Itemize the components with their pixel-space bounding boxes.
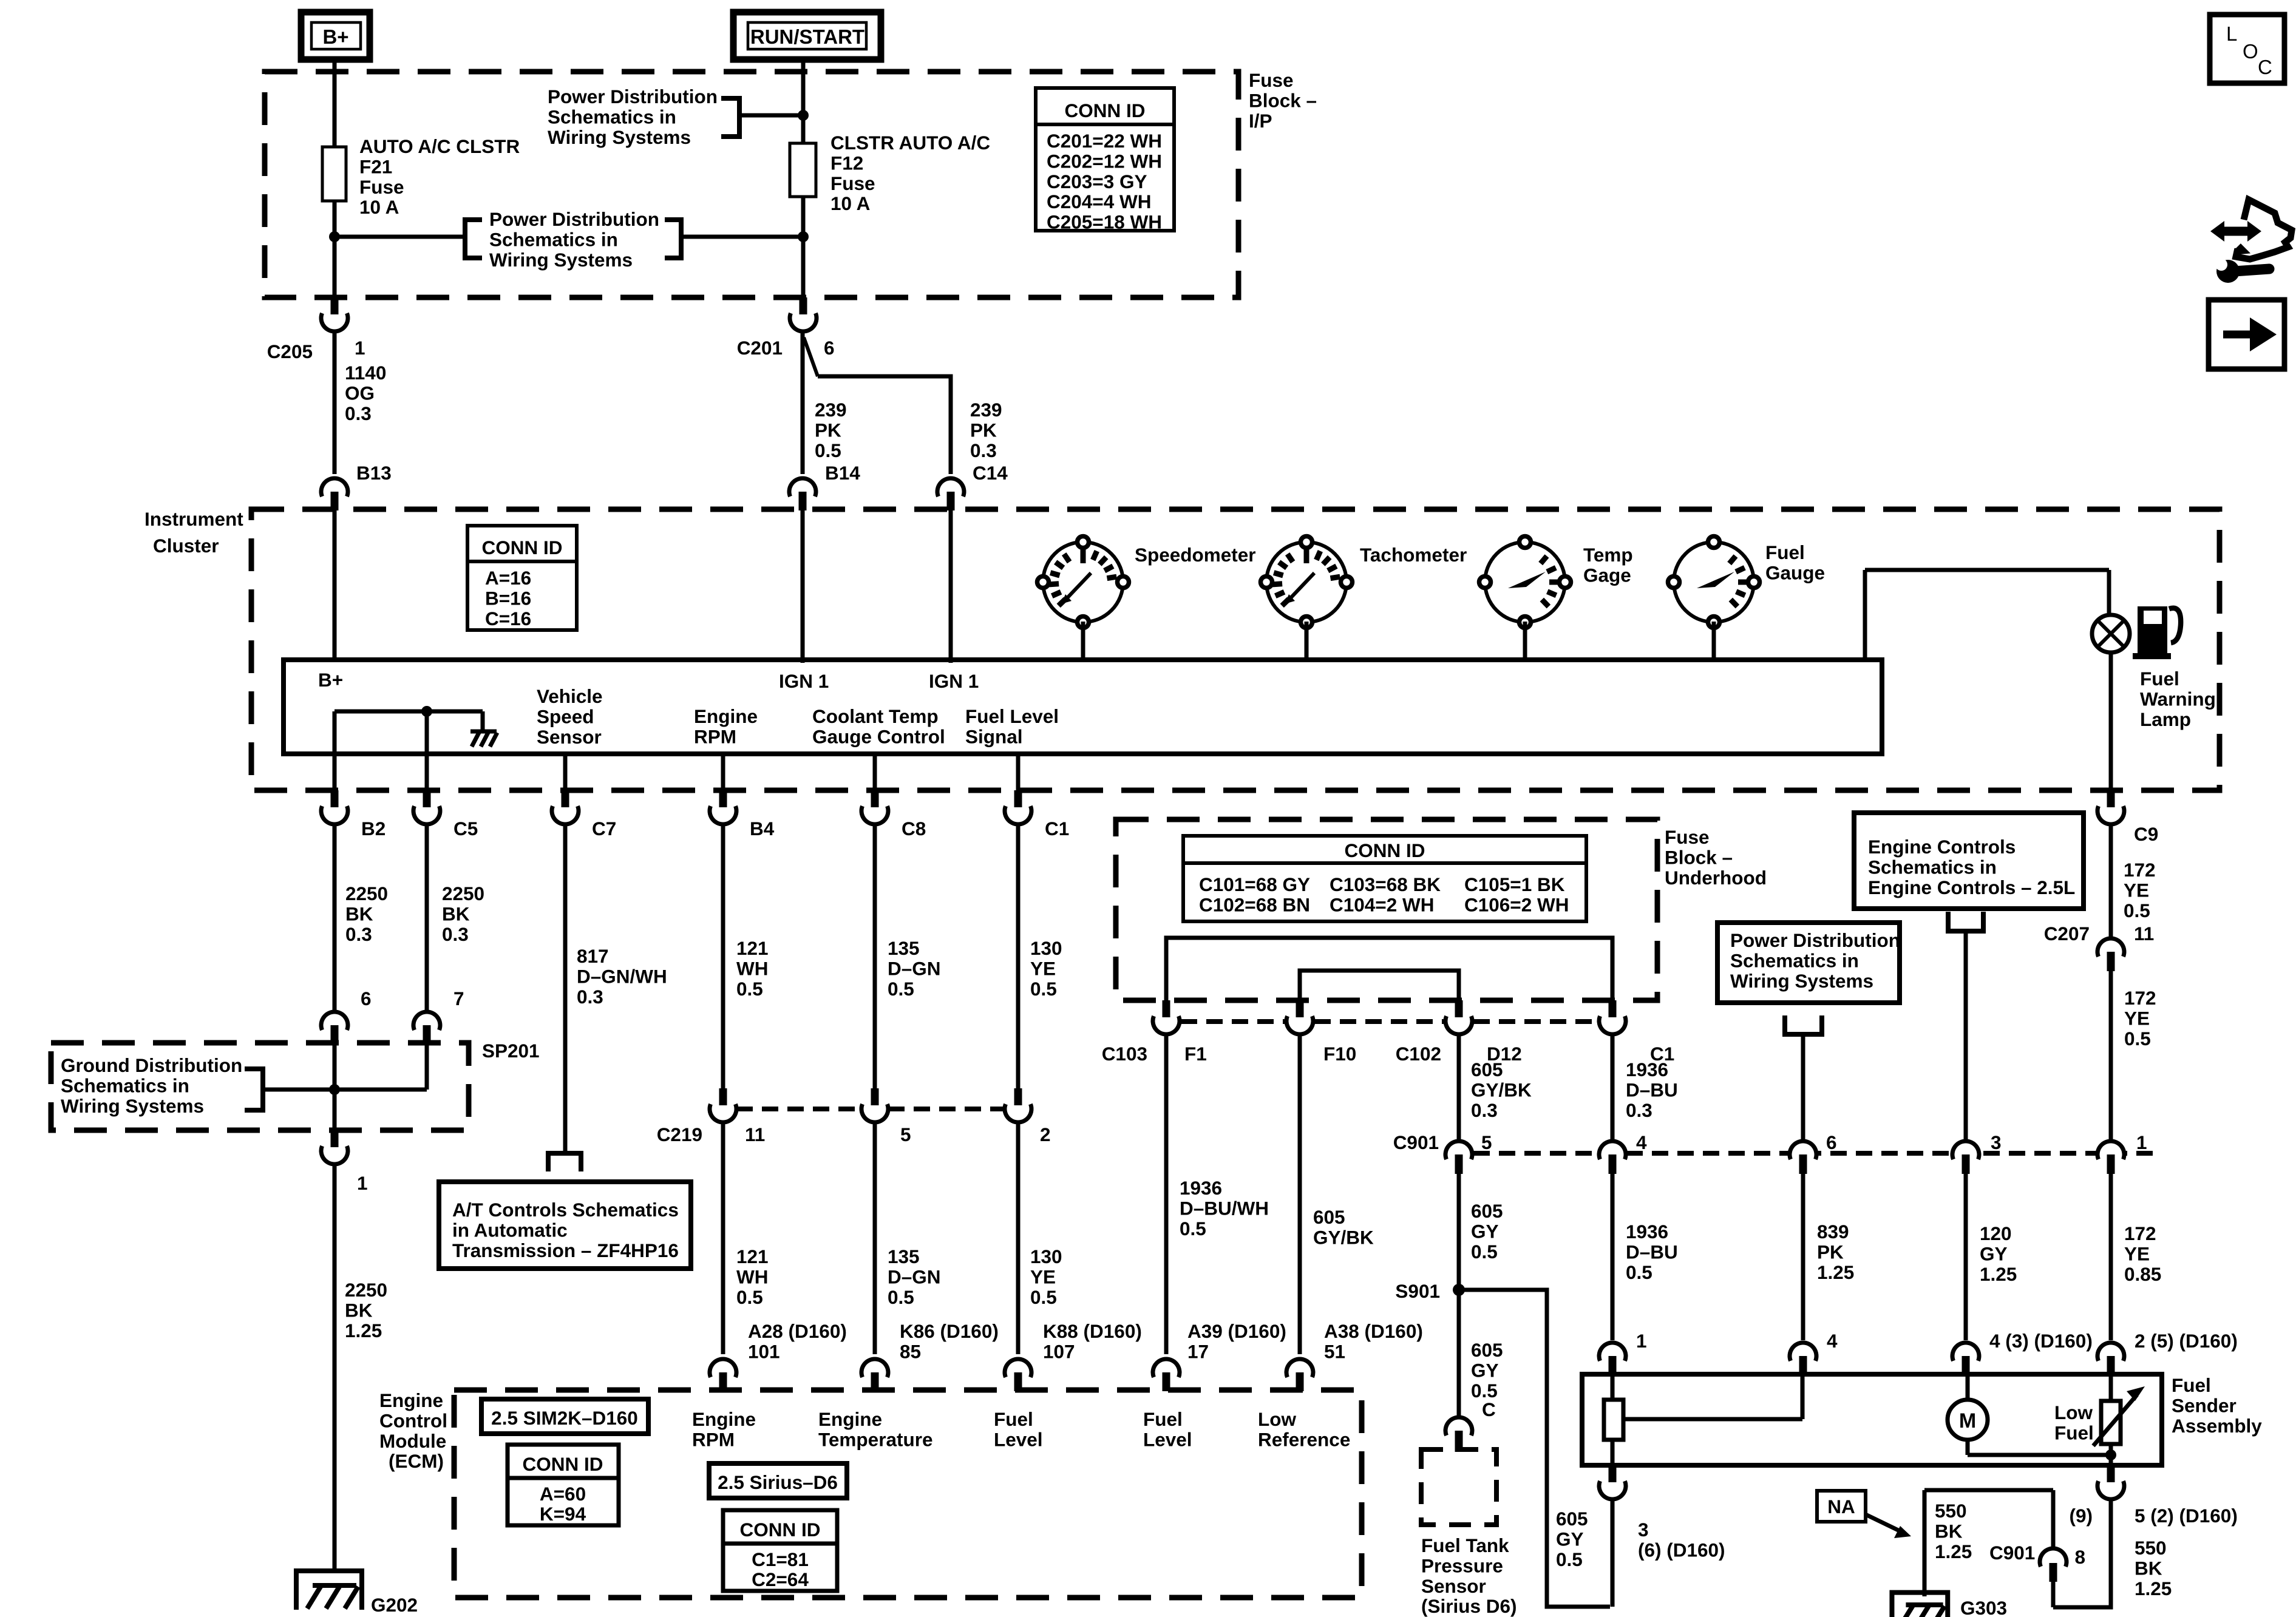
svg-text:5 (2) (D160): 5 (2) (D160) — [2135, 1505, 2238, 1527]
junction above F12 — [798, 110, 809, 121]
svg-text:Level: Level — [1143, 1428, 1192, 1450]
svg-text:Assembly: Assembly — [2172, 1415, 2262, 1437]
svg-text:17: 17 — [1187, 1340, 1209, 1362]
svg-text:2250: 2250 — [442, 883, 484, 904]
svg-text:YE: YE — [2124, 879, 2149, 901]
fuel warning lamp — [2092, 615, 2130, 653]
wire 121 WH 0.5 lower — [721, 1122, 725, 1354]
2.5 Sirius-D6 box — [709, 1463, 847, 1498]
svg-text:0.3: 0.3 — [1471, 1099, 1498, 1121]
svg-text:0.5: 0.5 — [1180, 1218, 1206, 1239]
svg-text:1936: 1936 — [1626, 1221, 1668, 1242]
connector C219 pin 2 — [1005, 1104, 1031, 1122]
connector row C901 dashed line — [1448, 1151, 2160, 1156]
CONN ID table fuse block I/P — [1036, 88, 1174, 231]
svg-text:7: 7 — [453, 988, 464, 1009]
svg-text:0.5: 0.5 — [1471, 1241, 1498, 1263]
svg-text:0.3: 0.3 — [1626, 1099, 1652, 1121]
svg-text:Transmission – ZF4HP16: Transmission – ZF4HP16 — [452, 1239, 679, 1261]
wire 2250 BK 0.3 (C5) — [425, 824, 429, 1010]
wire 1936 D-BU/WH 0.5 (F1) — [1164, 1034, 1169, 1354]
svg-text:1: 1 — [355, 337, 365, 359]
connector C8 — [861, 806, 888, 824]
svg-text:1140: 1140 — [345, 362, 386, 384]
wire B+ to fuse F21 — [333, 59, 337, 147]
svg-text:C201=22 WH: C201=22 WH — [1047, 130, 1162, 152]
svg-text:Fuel: Fuel — [1765, 541, 1805, 563]
svg-text:Fuse: Fuse — [1249, 69, 1294, 91]
svg-text:C103: C103 — [1102, 1043, 1147, 1065]
svg-text:BK: BK — [1935, 1520, 1963, 1542]
svg-text:Module: Module — [379, 1430, 446, 1452]
svg-text:A=60: A=60 — [540, 1483, 586, 1505]
wire F21 to C205 — [333, 201, 337, 299]
svg-text:GY: GY — [1471, 1359, 1499, 1381]
svg-text:Wiring Systems: Wiring Systems — [489, 249, 633, 271]
fuel level sender (variable resistor) — [2109, 1374, 2113, 1401]
svg-text:C104=2 WH: C104=2 WH — [1330, 893, 1434, 915]
svg-text:YE: YE — [1030, 1266, 1056, 1287]
svg-text:2250: 2250 — [345, 1279, 387, 1301]
svg-text:0.5: 0.5 — [1030, 978, 1057, 1000]
engine controls schematics box — [1854, 813, 2084, 909]
svg-text:CONN ID: CONN ID — [1065, 100, 1146, 121]
cluster internal box — [284, 660, 1882, 754]
svg-text:C101=68 GY: C101=68 GY — [1199, 873, 1310, 895]
wire 1936 D-BU 0.3 (C1) — [1611, 1034, 1615, 1141]
connector C103 F1 — [1153, 1016, 1180, 1034]
connector C901 pin 8 (9) — [2040, 1548, 2067, 1567]
wire C14 into cluster — [949, 509, 953, 663]
svg-text:Engine: Engine — [379, 1389, 443, 1411]
svg-text:(9): (9) — [2070, 1505, 2093, 1527]
svg-text:Schematics in: Schematics in — [1730, 949, 1859, 971]
svg-text:Fuel: Fuel — [2054, 1422, 2094, 1443]
svg-text:C: C — [2258, 56, 2272, 78]
svg-text:C9: C9 — [2134, 823, 2158, 845]
connector B2 — [321, 806, 348, 824]
svg-text:Power Distribution: Power Distribution — [548, 86, 718, 107]
svg-text:K=94: K=94 — [540, 1503, 586, 1525]
connector C5 — [413, 806, 440, 824]
svg-text:239: 239 — [970, 399, 1002, 421]
svg-text:Sensor: Sensor — [1421, 1575, 1486, 1597]
svg-text:0.3: 0.3 — [442, 923, 469, 945]
ground G303 — [1906, 1602, 1943, 1607]
svg-text:11: 11 — [2134, 923, 2154, 944]
svg-text:Schematics in: Schematics in — [61, 1074, 189, 1096]
svg-text:C5: C5 — [453, 818, 478, 839]
fuel gauge — [1674, 542, 1754, 622]
vehicle navigation icon — [2236, 200, 2292, 259]
svg-text:Reference: Reference — [1258, 1428, 1350, 1450]
wire 130 YE 0.5 (C1) — [1016, 824, 1021, 1088]
svg-text:Wiring Systems: Wiring Systems — [1730, 970, 1873, 992]
svg-text:1: 1 — [2136, 1131, 2147, 1153]
wire 120 GY 1.25 — [1964, 1174, 1968, 1340]
svg-text:1.25: 1.25 — [1935, 1541, 1972, 1562]
svg-text:4 (3) (D160): 4 (3) (D160) — [1989, 1330, 2093, 1352]
svg-text:F12: F12 — [830, 152, 863, 174]
svg-text:S901: S901 — [1395, 1280, 1440, 1302]
connector row C219 dashed line — [736, 1107, 861, 1111]
svg-text:172: 172 — [2124, 987, 2156, 1009]
bracket callout Power Distribution left — [465, 220, 482, 258]
A/T controls schematics box — [439, 1182, 691, 1269]
connector 1 (below SP201) — [321, 1146, 348, 1164]
svg-text:101: 101 — [748, 1340, 780, 1362]
connector K86 (D160) 85 — [861, 1359, 888, 1377]
wire callout to splice — [263, 1088, 335, 1092]
svg-text:C205: C205 — [267, 341, 313, 362]
engine control module dashed box — [454, 1390, 1362, 1598]
svg-text:Fuel: Fuel — [2172, 1374, 2211, 1396]
svg-text:605: 605 — [1471, 1339, 1503, 1361]
svg-text:RPM: RPM — [694, 725, 736, 747]
svg-text:C: C — [1482, 1398, 1496, 1420]
svg-text:135: 135 — [888, 1246, 920, 1267]
connector C201 pin 6 — [790, 313, 817, 331]
svg-text:Cluster: Cluster — [153, 535, 219, 557]
svg-text:C201: C201 — [737, 337, 783, 359]
svg-text:Block –: Block – — [1249, 89, 1317, 111]
connector fuel sender pin 3 (6) (D160) — [1599, 1481, 1626, 1499]
wire junction to F12 — [801, 113, 806, 143]
svg-text:D–GN: D–GN — [888, 1266, 941, 1287]
svg-text:B=16: B=16 — [485, 587, 531, 609]
svg-text:605: 605 — [1471, 1200, 1503, 1222]
fuse block internal wire F1-C1 — [1166, 938, 1612, 1000]
arrow reference box — [2209, 300, 2284, 369]
svg-text:A28 (D160): A28 (D160) — [748, 1320, 847, 1342]
svg-text:0.5: 0.5 — [1556, 1548, 1583, 1570]
callout wire to Power Distribution (top) — [739, 114, 803, 118]
svg-text:C102=68 BN: C102=68 BN — [1199, 893, 1310, 915]
wire 2250 BK 0.3 (B2) — [333, 824, 337, 1010]
fuse block internal wire F10-D12 — [1300, 971, 1459, 1000]
svg-text:G303: G303 — [1960, 1597, 2007, 1617]
ground G202 — [313, 1583, 356, 1588]
svg-text:Low: Low — [1258, 1408, 1296, 1430]
wire 172 YE 0.5 (upper) — [2109, 824, 2113, 938]
svg-text:1936: 1936 — [1626, 1059, 1668, 1080]
svg-text:Wiring Systems: Wiring Systems — [61, 1095, 204, 1117]
wire 135 D-GN 0.5 (C8) — [873, 824, 877, 1088]
svg-text:A=16: A=16 — [485, 567, 531, 589]
wire 605 GY/BK (F10) — [1298, 1034, 1302, 1354]
svg-text:0.5: 0.5 — [1626, 1261, 1652, 1283]
svg-text:C106=2 WH: C106=2 WH — [1464, 893, 1569, 915]
internal B+ bus wire — [335, 710, 483, 714]
junction low fuel / motor — [2105, 1449, 2116, 1460]
svg-text:605: 605 — [1313, 1206, 1345, 1228]
svg-text:135: 135 — [888, 937, 920, 959]
connector C1 (underhood) — [1599, 1016, 1626, 1034]
svg-text:Engine: Engine — [818, 1408, 882, 1430]
svg-text:0.5: 0.5 — [1030, 1286, 1057, 1308]
svg-text:Underhood: Underhood — [1665, 867, 1767, 889]
wire 130 YE 0.5 lower — [1016, 1122, 1021, 1354]
svg-text:Power Distribution: Power Distribution — [489, 208, 659, 230]
connector fuel sender pin 2 (5) (D160) — [2097, 1343, 2124, 1361]
svg-text:GY/BK: GY/BK — [1471, 1079, 1532, 1100]
svg-text:1936: 1936 — [1180, 1177, 1222, 1199]
svg-text:C207: C207 — [2044, 923, 2090, 944]
wire B14 into cluster — [801, 509, 805, 663]
instrument cluster dashed box — [251, 509, 2220, 790]
connector fuel sender pin 4 (3) (D160) — [1952, 1343, 1979, 1361]
svg-text:10 A: 10 A — [359, 196, 399, 218]
svg-text:0.5: 0.5 — [888, 1286, 914, 1308]
internal ground symbol — [470, 730, 497, 734]
svg-text:Coolant Temp: Coolant Temp — [812, 705, 939, 727]
svg-text:GY/BK: GY/BK — [1313, 1226, 1374, 1248]
power feed B+ box — [301, 12, 370, 59]
junction below F12 — [798, 231, 809, 242]
svg-text:PK: PK — [1817, 1241, 1844, 1263]
svg-text:C2=64: C2=64 — [752, 1568, 809, 1590]
bracket power distribution right — [1785, 1015, 1822, 1034]
svg-text:Fuse: Fuse — [359, 176, 404, 198]
fuel sender resistor — [1611, 1374, 1615, 1400]
tachometer wire — [1305, 622, 1309, 662]
svg-text:D–BU: D–BU — [1626, 1079, 1678, 1100]
wire 1140 OG — [333, 331, 337, 474]
wire F12 to C201 — [801, 197, 806, 299]
callout wire to Power Distribution (mid) — [681, 235, 803, 239]
connector C (fuel tank pressure sensor) — [1445, 1417, 1472, 1436]
svg-text:51: 51 — [1324, 1340, 1345, 1362]
svg-text:F10: F10 — [1323, 1043, 1356, 1065]
svg-text:C=16: C=16 — [485, 608, 531, 629]
svg-text:Fuse: Fuse — [1665, 826, 1710, 848]
svg-text:550: 550 — [1935, 1500, 1967, 1522]
SP201 dashed box — [51, 1043, 469, 1130]
svg-text:0.85: 0.85 — [2124, 1263, 2161, 1285]
svg-text:Tachometer: Tachometer — [1360, 544, 1467, 566]
junction B+/ground — [421, 706, 432, 717]
svg-text:2250: 2250 — [345, 883, 388, 904]
wire 550 BK 1.25 (to G303) — [2051, 1490, 2056, 1548]
svg-text:11: 11 — [745, 1124, 765, 1145]
wire 605 GY 0.5 (to S901) — [1457, 1174, 1461, 1418]
svg-text:Fuel Tank: Fuel Tank — [1421, 1534, 1509, 1556]
temp gage wire — [1523, 622, 1527, 662]
fuse block I/P dashed box — [265, 72, 1238, 297]
svg-text:CONN ID: CONN ID — [482, 537, 563, 558]
fuse block underhood dashed box — [1116, 819, 1657, 1000]
connector C9 — [2097, 806, 2124, 824]
svg-text:C1=81: C1=81 — [752, 1548, 809, 1570]
svg-text:0.3: 0.3 — [970, 439, 997, 461]
svg-text:Gauge Control: Gauge Control — [812, 725, 945, 747]
bracket A/T controls — [548, 1153, 581, 1171]
wire 172 YE 0.5 (lower) — [2109, 971, 2113, 1141]
svg-text:BK: BK — [2135, 1557, 2162, 1579]
svg-text:10 A: 10 A — [830, 192, 870, 214]
wire 839 PK 1.25 — [1801, 1174, 1805, 1340]
wire 172 YE 0.85 — [2109, 1174, 2113, 1340]
svg-text:Wiring Systems: Wiring Systems — [548, 126, 691, 148]
svg-text:0.3: 0.3 — [345, 923, 372, 945]
CONN ID table Sirius — [723, 1510, 837, 1591]
svg-text:85: 85 — [900, 1340, 921, 1362]
svg-text:817: 817 — [577, 945, 609, 967]
svg-text:NA: NA — [1827, 1496, 1855, 1517]
svg-text:CONN ID: CONN ID — [1345, 839, 1425, 861]
svg-text:B4: B4 — [750, 818, 775, 839]
svg-text:B13: B13 — [356, 462, 392, 484]
svg-text:3: 3 — [1991, 1131, 2002, 1153]
svg-text:6: 6 — [1826, 1131, 1837, 1153]
svg-text:Power Distribution: Power Distribution — [1730, 929, 1900, 951]
svg-text:CONN ID: CONN ID — [523, 1453, 603, 1475]
svg-text:C14: C14 — [973, 462, 1008, 484]
svg-text:Control: Control — [379, 1409, 447, 1431]
connector fuel sender pin 5 (2) (D160) — [2097, 1481, 2124, 1499]
fuse F12 — [790, 143, 816, 197]
svg-text:6: 6 — [824, 337, 835, 359]
connector B13 — [321, 478, 348, 497]
svg-text:2: 2 — [1040, 1124, 1051, 1145]
connector A38 (D160) 51 — [1286, 1359, 1313, 1377]
connector C901 pin 3 — [1952, 1141, 1979, 1159]
2.5 SIM2K-D160 box — [481, 1399, 648, 1434]
connector B4 — [710, 806, 736, 824]
svg-text:A39 (D160): A39 (D160) — [1187, 1320, 1286, 1342]
svg-text:Block –: Block – — [1665, 846, 1733, 868]
svg-text:0.5: 0.5 — [2124, 900, 2150, 921]
wire 817 D-GN/WH 0.3 (C7) — [563, 824, 568, 1151]
svg-text:0.3: 0.3 — [345, 402, 372, 424]
svg-text:GY: GY — [1980, 1242, 2008, 1264]
svg-text:130: 130 — [1030, 1246, 1062, 1267]
svg-text:AUTO A/C CLSTR: AUTO A/C CLSTR — [359, 135, 520, 157]
connector A39 (D160) 17 — [1153, 1359, 1180, 1377]
svg-text:Gauge: Gauge — [1765, 561, 1825, 583]
svg-text:Fuel: Fuel — [2140, 668, 2179, 690]
svg-text:Sensor: Sensor — [537, 726, 602, 748]
connector A28 (D160) 101 — [710, 1359, 736, 1377]
svg-text:0.5: 0.5 — [888, 978, 914, 1000]
junction below F21 — [329, 231, 340, 242]
connector C207 pin 11 — [2097, 938, 2124, 957]
svg-text:WH: WH — [736, 957, 768, 979]
bracket callout Power Distribution mid — [665, 220, 681, 258]
svg-text:1.25: 1.25 — [1980, 1263, 2017, 1285]
cluster output stubs — [563, 754, 568, 790]
svg-text:1: 1 — [1636, 1330, 1647, 1352]
svg-text:Signal: Signal — [965, 725, 1023, 747]
power distribution schematics box (right) — [1717, 923, 1900, 1003]
svg-text:Schematics in: Schematics in — [1868, 856, 1997, 878]
svg-text:120: 120 — [1980, 1222, 2012, 1244]
svg-text:107: 107 — [1043, 1340, 1075, 1362]
power feed RUN/START box — [733, 12, 881, 59]
connector C219 pin 5 — [861, 1104, 888, 1122]
fuel sender assembly box — [1582, 1374, 2162, 1465]
bracket callout Power Distribution top — [721, 98, 739, 137]
svg-text:605: 605 — [1556, 1508, 1588, 1530]
svg-text:A/T Controls Schematics: A/T Controls Schematics — [452, 1199, 679, 1221]
svg-text:Gage: Gage — [1583, 564, 1631, 586]
svg-text:1.25: 1.25 — [2135, 1578, 2172, 1599]
svg-text:GY: GY — [1471, 1220, 1499, 1242]
svg-text:B+: B+ — [322, 25, 348, 48]
svg-text:K88 (D160): K88 (D160) — [1043, 1320, 1142, 1342]
svg-text:172: 172 — [2124, 1222, 2156, 1244]
svg-text:6: 6 — [361, 988, 372, 1009]
svg-text:A38 (D160): A38 (D160) — [1324, 1320, 1423, 1342]
junction SP201 — [329, 1084, 340, 1095]
svg-text:5: 5 — [1481, 1131, 1492, 1153]
svg-text:IGN 1: IGN 1 — [929, 670, 979, 692]
connector F10 — [1286, 1016, 1313, 1034]
svg-text:C105=1 BK: C105=1 BK — [1464, 873, 1565, 895]
svg-text:PK: PK — [970, 419, 997, 441]
svg-text:Fuel Level: Fuel Level — [965, 705, 1059, 727]
svg-text:2.5 Sirius–D6: 2.5 Sirius–D6 — [718, 1471, 838, 1493]
svg-text:Sender: Sender — [2172, 1394, 2237, 1416]
wire 605 GY 0.5 (sender ground branch) — [1611, 1499, 1615, 1607]
svg-text:121: 121 — [736, 1246, 769, 1267]
svg-text:PK: PK — [815, 419, 841, 441]
svg-text:D–BU: D–BU — [1626, 1241, 1678, 1263]
svg-text:GY: GY — [1556, 1528, 1584, 1550]
svg-text:Engine Controls: Engine Controls — [1868, 836, 2016, 858]
wire power distribution to C901 — [1801, 1034, 1805, 1141]
wire 1936 D-BU 0.5 — [1611, 1174, 1615, 1340]
svg-text:2.5 SIM2K–D160: 2.5 SIM2K–D160 — [491, 1407, 638, 1429]
svg-text:Engine: Engine — [692, 1408, 756, 1430]
svg-text:G202: G202 — [371, 1594, 418, 1616]
svg-text:YE: YE — [2124, 1007, 2150, 1029]
wire 550 BK 1.25 (right) — [2053, 1499, 2111, 1607]
svg-text:121: 121 — [736, 937, 769, 959]
svg-text:YE: YE — [1030, 957, 1056, 979]
fuel pump motor M — [1966, 1374, 1970, 1400]
wire 2250 BK 1.25 — [333, 1164, 337, 1569]
connector C901 pin 4 — [1599, 1141, 1626, 1159]
svg-text:5: 5 — [900, 1124, 911, 1145]
svg-text:C202=12 WH: C202=12 WH — [1047, 150, 1162, 172]
svg-text:D–BU/WH: D–BU/WH — [1180, 1197, 1269, 1219]
svg-text:WH: WH — [736, 1266, 768, 1287]
svg-text:0.3: 0.3 — [577, 986, 603, 1008]
svg-text:B+: B+ — [318, 669, 343, 691]
wire S901 branch to fuel sender pin 3 — [1459, 1290, 1610, 1607]
svg-text:550: 550 — [2135, 1537, 2167, 1559]
splice SP201 wires — [333, 1044, 337, 1130]
svg-text:Temp: Temp — [1583, 544, 1633, 566]
connector C7 — [552, 806, 579, 824]
svg-text:CLSTR AUTO A/C: CLSTR AUTO A/C — [830, 132, 990, 154]
fuel warning lamp circuit wire — [1863, 570, 1867, 662]
CONN ID table ECM — [508, 1445, 619, 1525]
svg-text:0.5: 0.5 — [736, 978, 763, 1000]
svg-text:1.25: 1.25 — [1817, 1261, 1854, 1283]
connector C219 pin 11 — [710, 1104, 736, 1122]
svg-text:4: 4 — [1827, 1330, 1838, 1352]
svg-text:IGN 1: IGN 1 — [779, 670, 829, 692]
svg-text:B14: B14 — [825, 462, 860, 484]
svg-text:Schematics in: Schematics in — [489, 228, 618, 250]
svg-text:M: M — [1959, 1409, 1976, 1432]
wire 121 WH 0.5 (B4) — [721, 824, 725, 1088]
svg-text:Instrument: Instrument — [144, 508, 243, 530]
svg-text:0.5: 0.5 — [2124, 1028, 2151, 1049]
svg-text:K86 (D160): K86 (D160) — [900, 1320, 999, 1342]
